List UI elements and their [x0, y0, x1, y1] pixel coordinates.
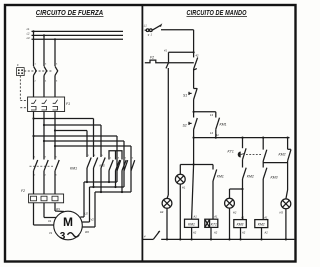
svg-text:U1: U1 [48, 219, 52, 223]
svg-text:CIRCUITO DE FUERZA: CIRCUITO DE FUERZA [36, 10, 104, 17]
svg-text:F1: F1 [66, 102, 70, 106]
svg-text:A1: A1 [263, 216, 268, 220]
svg-text:W1: W1 [56, 207, 60, 211]
svg-text:A2: A2 [213, 231, 218, 235]
svg-text:V1: V1 [49, 231, 53, 235]
svg-text:W2: W2 [85, 230, 89, 234]
svg-text:KM2: KM2 [279, 153, 286, 157]
svg-text:S2: S2 [183, 124, 187, 128]
svg-text:KM1: KM1 [217, 175, 224, 179]
svg-text:H1: H1 [182, 186, 186, 190]
svg-text:KM2: KM2 [100, 164, 106, 168]
svg-text:F2: F2 [21, 189, 25, 193]
svg-text:A1: A1 [193, 215, 198, 219]
svg-text:KT1: KT1 [228, 150, 234, 154]
svg-text:A2: A2 [241, 231, 246, 235]
svg-text:A2: A2 [264, 231, 269, 235]
svg-text:KM2: KM2 [247, 175, 254, 179]
svg-text:V2: V2 [91, 218, 95, 222]
svg-text:KM2: KM2 [258, 223, 265, 227]
svg-text:A1: A1 [213, 215, 218, 219]
svg-text:KM3: KM3 [271, 176, 278, 180]
svg-text:3: 3 [60, 231, 66, 242]
svg-text:F2: F2 [150, 56, 154, 60]
svg-text:S1: S1 [183, 94, 187, 98]
svg-text:M: M [63, 215, 73, 229]
svg-text:H4: H4 [160, 210, 164, 214]
svg-text:H3: H3 [280, 211, 284, 215]
svg-text:KM1: KM1 [220, 123, 227, 127]
svg-text:KM1: KM1 [70, 167, 77, 171]
svg-text:KM3: KM3 [237, 223, 244, 227]
svg-text:KM1: KM1 [188, 222, 195, 226]
svg-text:H2: H2 [233, 211, 237, 215]
svg-text:KT1: KT1 [211, 222, 217, 226]
svg-text:U2: U2 [85, 212, 89, 216]
svg-text:A1: A1 [240, 216, 245, 220]
svg-text:CIRCUITO DE MANDO: CIRCUITO DE MANDO [187, 10, 247, 17]
svg-text:A2: A2 [192, 231, 197, 235]
